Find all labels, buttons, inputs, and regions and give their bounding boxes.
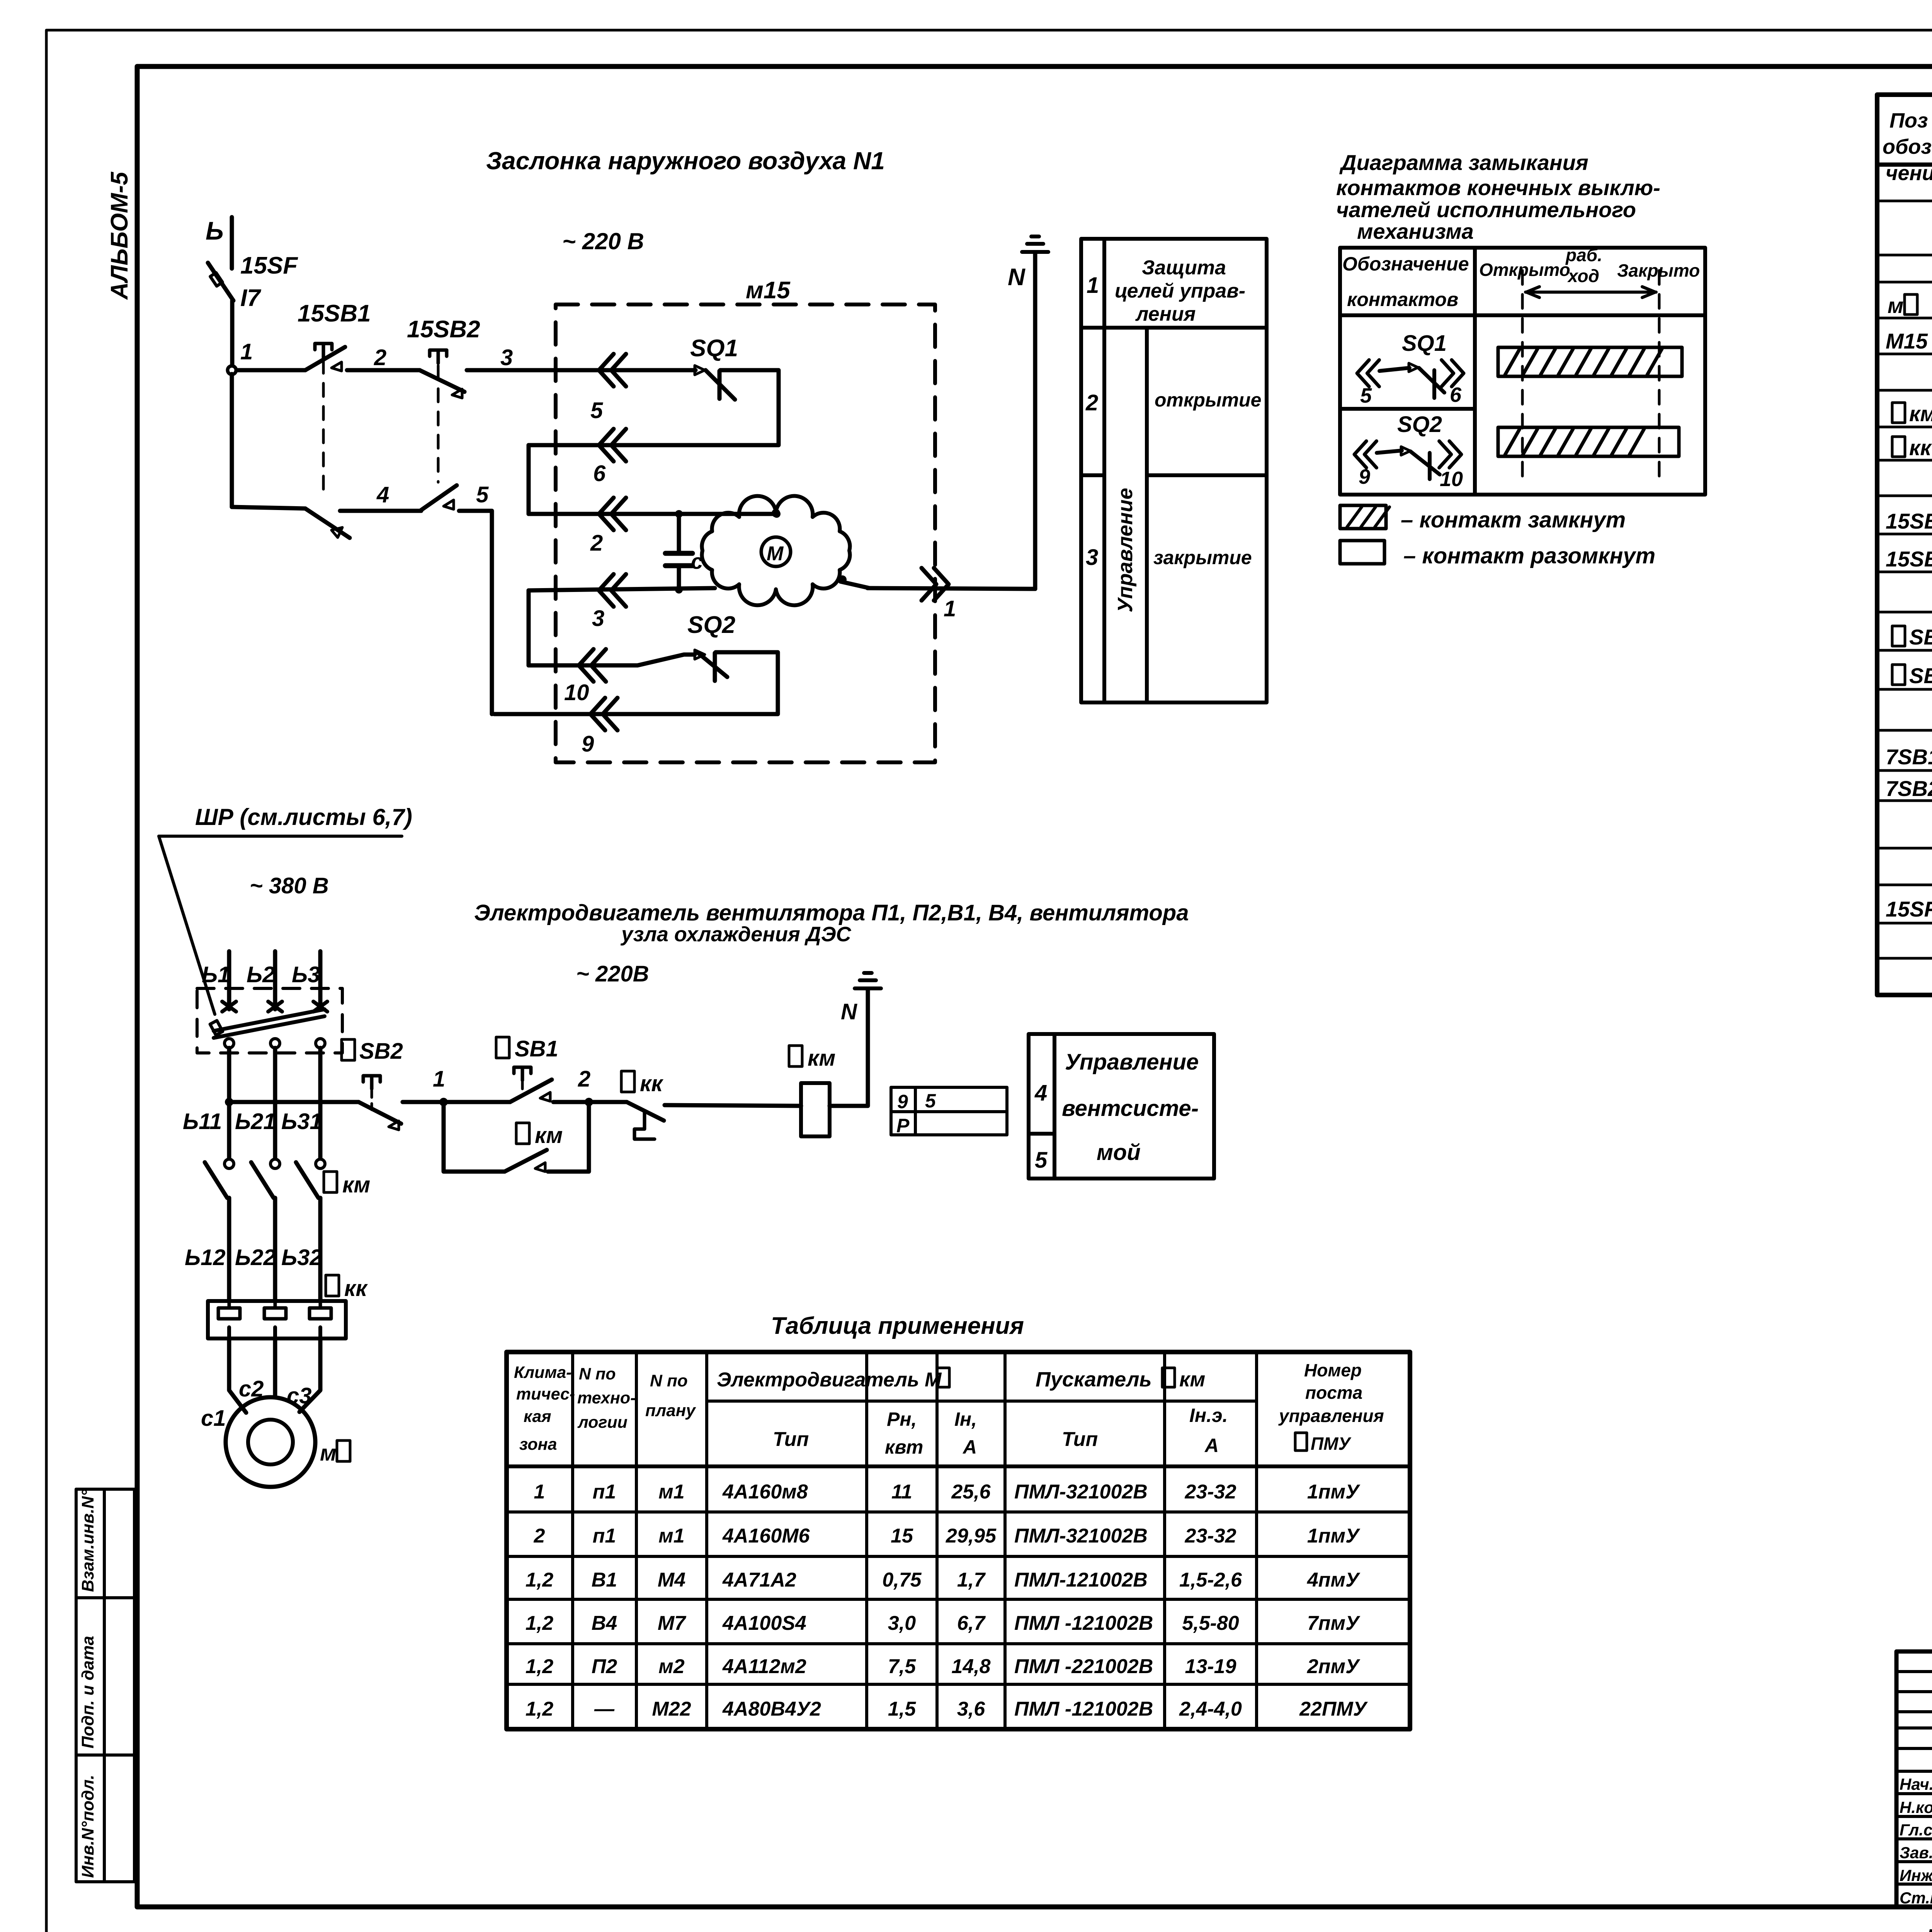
contactor main contacts <box>205 1159 325 1301</box>
spec row м@ <box>1888 293 1932 318</box>
svg-text:SQ2: SQ2 <box>1397 412 1442 437</box>
svg-text:М: М <box>767 543 784 565</box>
svg-text:1пмУ: 1пмУ <box>1307 1525 1361 1547</box>
svg-text:управления: управления <box>1278 1406 1384 1426</box>
svg-text:механизма: механизма <box>1357 219 1474 243</box>
svg-text:Электродвигатель М: Электродвигатель М <box>717 1369 942 1391</box>
svg-text:п1: п1 <box>593 1525 616 1547</box>
wire row4 right drop <box>459 511 492 714</box>
motor M stator <box>226 1397 315 1487</box>
svg-text:2: 2 <box>534 1525 545 1547</box>
pushbutton 15SB1 NO contact <box>305 344 345 371</box>
wire 15SB1 to 15SB2 <box>347 368 420 372</box>
svg-text:Диаграмма замыкания: Диаграмма замыкания <box>1339 150 1588 175</box>
contact 15SB1.2 NC <box>305 509 350 538</box>
spec row @SB1 <box>1892 625 1932 649</box>
svg-text:– контакт разомкнут: – контакт разомкнут <box>1403 543 1655 568</box>
svg-text:—: — <box>594 1698 615 1720</box>
svg-text:с2: с2 <box>239 1376 264 1401</box>
svg-text:ления: ления <box>1135 303 1196 325</box>
svg-text:Ь: Ь <box>206 216 224 245</box>
margin stamp boxes <box>76 1489 134 1882</box>
svg-text:1,5: 1,5 <box>888 1698 916 1720</box>
svg-text:Управление: Управление <box>1065 1049 1199 1075</box>
svg-text:5: 5 <box>1360 384 1372 407</box>
svg-text:Копировал: Копировал <box>1927 1925 1932 1932</box>
svg-text:2: 2 <box>590 531 603 556</box>
wire row 10 <box>529 655 695 665</box>
svg-text:Инж.: Инж. <box>1900 1866 1932 1884</box>
function box Управление вентсистемой <box>1029 1034 1214 1179</box>
capacitor C <box>665 514 692 590</box>
title block frame <box>1896 1651 1932 1907</box>
svg-text:АЛЬБОМ-5: АЛЬБОМ-5 <box>106 171 133 300</box>
limit switch SQ1 <box>695 366 735 400</box>
svg-text:Взам.инв.N°: Взам.инв.N° <box>78 1490 97 1592</box>
svg-text:Нач.отд.: Нач.отд. <box>1900 1775 1932 1793</box>
svg-text:открытие: открытие <box>1155 389 1261 411</box>
svg-text:5: 5 <box>925 1090 936 1112</box>
wire to node 1 <box>403 1100 444 1104</box>
svg-text:6: 6 <box>593 461 606 486</box>
label КК relay <box>326 1275 368 1301</box>
svg-text:Тип: Тип <box>773 1428 809 1451</box>
ground symbol N coil <box>855 973 881 988</box>
thermal contact КК NC <box>589 1102 801 1139</box>
svg-text:Поз: Поз <box>1889 109 1928 132</box>
svg-text:ПМЛ-321002В: ПМЛ-321002В <box>1014 1481 1148 1503</box>
svg-text:В4: В4 <box>592 1612 617 1634</box>
svg-text:Номер: Номер <box>1304 1360 1362 1380</box>
svg-text:А: А <box>962 1436 977 1458</box>
contact 15SB2.2 NO <box>421 485 457 510</box>
wire coil to N <box>830 990 868 1106</box>
junction dots <box>675 510 683 518</box>
travel dashed limits <box>1521 270 1524 484</box>
svg-text:SQ1: SQ1 <box>690 335 738 362</box>
svg-text:N по: N по <box>579 1365 616 1383</box>
plug contact 10 <box>579 649 606 682</box>
svg-text:3,0: 3,0 <box>888 1612 916 1634</box>
svg-text:15SB2: 15SB2 <box>407 316 480 343</box>
svg-text:раб.: раб. <box>1565 245 1602 265</box>
spec row 15SB2 <box>1886 547 1932 571</box>
svg-text:N: N <box>841 999 857 1024</box>
svg-text:2,4-4,0: 2,4-4,0 <box>1179 1698 1242 1720</box>
svg-text:2: 2 <box>374 345 386 370</box>
svg-text:0,75: 0,75 <box>882 1569 922 1591</box>
svg-text:п1: п1 <box>593 1481 616 1503</box>
svg-text:6: 6 <box>1450 383 1462 406</box>
disconnect switch box dashed <box>197 988 342 1053</box>
wire row 3 <box>529 588 715 590</box>
wire node1 down <box>230 374 234 507</box>
symbol SQ1 <box>1357 331 1464 407</box>
svg-text:Зав.гр.: Зав.гр. <box>1900 1844 1932 1862</box>
svg-text:П2: П2 <box>592 1655 617 1678</box>
wire motor to N riser <box>840 582 869 588</box>
switch blades <box>210 1002 327 1048</box>
wire node1 to 15SB1 <box>236 368 305 372</box>
svg-text:закрытие: закрытие <box>1153 547 1252 568</box>
plug contact 6 <box>599 429 626 461</box>
svg-text:вентсисте-: вентсисте- <box>1062 1096 1199 1121</box>
label M motor <box>320 1440 350 1466</box>
stop button SB2 NC <box>359 1076 401 1130</box>
wire row 2 to motor top <box>529 512 776 516</box>
svg-text:2пмУ: 2пмУ <box>1307 1655 1361 1678</box>
svg-text:1: 1 <box>1087 273 1099 298</box>
spec row 15SF <box>1886 897 1932 921</box>
svg-text:7SB2: 7SB2 <box>1886 776 1932 801</box>
svg-text:Защита: Защита <box>1142 257 1226 279</box>
svg-text:ПМЛ-121002В: ПМЛ-121002В <box>1014 1569 1148 1591</box>
svg-text:Ь2: Ь2 <box>247 962 275 987</box>
terminal marker table <box>891 1087 1007 1135</box>
application row 1 <box>534 1481 1361 1503</box>
node L11 <box>225 1098 233 1106</box>
svg-text:техно-: техно- <box>577 1389 636 1407</box>
signature row Ст.техн. <box>1900 1888 1932 1907</box>
svg-text:2: 2 <box>1085 390 1098 415</box>
svg-text:4А71А2: 4А71А2 <box>722 1569 796 1591</box>
svg-text:3,6: 3,6 <box>957 1698 985 1720</box>
signature row Инж. <box>1900 1866 1932 1885</box>
specification table <box>1877 95 1932 995</box>
svg-text:м2: м2 <box>658 1655 684 1678</box>
svg-text:5,5-80: 5,5-80 <box>1182 1612 1239 1634</box>
application row 5 <box>526 1655 1361 1678</box>
svg-text:Ь3: Ь3 <box>292 962 320 987</box>
svg-text:м: м <box>320 1440 337 1466</box>
limit switch SQ2 <box>695 650 727 681</box>
svg-text:5: 5 <box>1035 1148 1048 1173</box>
svg-text:15: 15 <box>891 1525 913 1547</box>
svg-text:1пмУ: 1пмУ <box>1307 1481 1361 1503</box>
svg-text:4: 4 <box>1034 1080 1047 1105</box>
svg-text:23-32: 23-32 <box>1185 1481 1236 1503</box>
junction dot cap bottom <box>675 586 683 594</box>
svg-text:1: 1 <box>534 1481 545 1503</box>
spec row 15SB1 <box>1886 509 1932 533</box>
svg-text:SB2: SB2 <box>1909 663 1932 688</box>
wire riser to N <box>1033 253 1037 589</box>
svg-text:1,2: 1,2 <box>526 1655 553 1678</box>
wire SQ1 loop to contact 6 <box>529 370 779 445</box>
actuator box M15 dashed <box>556 304 935 762</box>
svg-text:Электродвигатель вентилятора: Электродвигатель вентилятора П1, П2,В1, … <box>474 900 1189 925</box>
application row 2 <box>534 1525 1361 1547</box>
svg-text:Пускатель: Пускатель <box>1036 1368 1152 1391</box>
svg-text:Ст.техн.: Ст.техн. <box>1900 1889 1932 1907</box>
svg-text:мой: мой <box>1097 1140 1141 1165</box>
svg-text:1: 1 <box>240 339 253 364</box>
svg-text:15SB1: 15SB1 <box>298 300 371 327</box>
control wire from L11 <box>233 1100 359 1104</box>
wire bracket 6-2 <box>527 445 531 514</box>
svg-text:1,2: 1,2 <box>526 1612 553 1634</box>
svg-text:1: 1 <box>433 1066 445 1092</box>
start button SB1 NO <box>444 1067 552 1102</box>
svg-text:Ь32: Ь32 <box>281 1245 322 1270</box>
application row 4 <box>526 1612 1361 1634</box>
svg-text:Открыто: Открыто <box>1479 260 1570 280</box>
svg-text:м15: м15 <box>746 277 791 304</box>
svg-text:кк: кк <box>1909 435 1932 460</box>
wire row4 left <box>232 507 305 509</box>
svg-text:Инв.N°подл.: Инв.N°подл. <box>78 1775 97 1878</box>
svg-text:М15: М15 <box>1886 329 1928 353</box>
spec row 7SB1 <box>1886 745 1932 769</box>
svg-text:4пмУ: 4пмУ <box>1307 1569 1361 1591</box>
svg-text:Таблица применения: Таблица применения <box>771 1313 1024 1339</box>
svg-text:М4: М4 <box>658 1569 685 1591</box>
svg-text:логии: логии <box>577 1413 628 1432</box>
svg-text:Iн,: Iн, <box>954 1408 977 1430</box>
wires to contactor <box>229 1048 320 1159</box>
svg-text:25,6: 25,6 <box>951 1481 991 1503</box>
svg-text:поста: поста <box>1305 1383 1362 1403</box>
legend open contact <box>1340 541 1655 568</box>
svg-text:Ь21: Ь21 <box>235 1109 276 1134</box>
svg-text:7SB1: 7SB1 <box>1886 745 1932 769</box>
svg-text:кк: кк <box>640 1071 663 1096</box>
svg-text:км: км <box>1179 1368 1205 1391</box>
plug contact 3 <box>599 574 626 607</box>
svg-text:5: 5 <box>590 398 603 423</box>
application row 3 <box>526 1569 1361 1591</box>
svg-text:15SB2: 15SB2 <box>1886 547 1932 571</box>
travel dimension arrow <box>1526 287 1656 298</box>
svg-text:Тип: Тип <box>1062 1428 1098 1451</box>
svg-text:– контакт замкнут: – контакт замкнут <box>1401 507 1626 532</box>
svg-text:кая: кая <box>524 1407 551 1426</box>
svg-text:4А112м2: 4А112м2 <box>722 1655 806 1678</box>
svg-text:4А160М6: 4А160М6 <box>722 1525 810 1547</box>
svg-text:Ь31: Ь31 <box>281 1109 322 1134</box>
svg-text:1,2: 1,2 <box>526 1698 553 1720</box>
svg-text:Подп. и дата: Подп. и дата <box>78 1636 97 1748</box>
wire node3 to SQ1 <box>467 368 696 372</box>
svg-text:контактов: контактов <box>1347 289 1458 310</box>
svg-text:14,8: 14,8 <box>951 1655 990 1678</box>
svg-text:Iн.э.: Iн.э. <box>1189 1405 1228 1426</box>
svg-text:чение: чение <box>1886 162 1932 185</box>
svg-text:4А160м8: 4А160м8 <box>722 1481 808 1503</box>
svg-text:3: 3 <box>1086 545 1098 570</box>
signature row Гл.спец. <box>1900 1820 1932 1839</box>
svg-text:1,2: 1,2 <box>526 1569 553 1591</box>
svg-text:км: км <box>808 1046 835 1071</box>
wires to motor <box>229 1338 320 1413</box>
svg-text:Ь22: Ь22 <box>235 1245 276 1270</box>
svg-text:7,5: 7,5 <box>888 1655 916 1678</box>
signature row Н.контр. <box>1900 1798 1932 1817</box>
wire to node 2 <box>553 1100 589 1104</box>
svg-text:9: 9 <box>582 731 594 757</box>
svg-text:Обозначение: Обозначение <box>1342 253 1469 275</box>
svg-text:с3: с3 <box>287 1383 312 1408</box>
spec row 7SB2 <box>1886 776 1932 801</box>
svg-text:А: А <box>1204 1435 1219 1456</box>
svg-text:23-32: 23-32 <box>1185 1525 1236 1547</box>
signature row Зав.гр. <box>1900 1843 1932 1862</box>
svg-text:I7: I7 <box>240 285 261 311</box>
node 1 <box>228 366 236 374</box>
svg-text:чателей исполнительного: чателей исполнительного <box>1336 197 1636 222</box>
state bar SQ2 <box>1498 427 1679 456</box>
svg-text:SQ1: SQ1 <box>1402 331 1447 356</box>
revision rows <box>1896 1651 1932 1907</box>
svg-text:км: км <box>1909 401 1932 426</box>
svg-text:10: 10 <box>564 680 589 705</box>
spec row @км <box>1892 401 1932 426</box>
contact diagram table <box>1340 248 1705 495</box>
svg-text:15SF: 15SF <box>240 252 298 279</box>
svg-text:9: 9 <box>1359 465 1370 488</box>
svg-text:квт: квт <box>885 1436 923 1458</box>
svg-text:целей управ-: целей управ- <box>1115 280 1245 302</box>
svg-text:~ 220В: ~ 220В <box>576 961 649 986</box>
svg-text:ПМЛ -121002В: ПМЛ -121002В <box>1014 1612 1153 1634</box>
svg-text:Ь12: Ь12 <box>185 1245 226 1270</box>
plug contact 1 <box>922 568 949 600</box>
plug contact 2 <box>599 498 626 530</box>
svg-text:SQ2: SQ2 <box>687 612 735 638</box>
pushbutton 15SB2 NC contact <box>420 350 464 398</box>
svg-text:ПМЛ-321002В: ПМЛ-321002В <box>1014 1525 1148 1547</box>
wire L supply lead <box>232 217 232 366</box>
wire row4 mid <box>340 509 421 513</box>
thermal relay heaters <box>208 1301 346 1338</box>
svg-text:4А100S4: 4А100S4 <box>722 1612 806 1634</box>
svg-text:кк: кк <box>344 1276 368 1301</box>
svg-text:13-19: 13-19 <box>1185 1655 1236 1678</box>
svg-text:3: 3 <box>500 345 513 370</box>
wire bracket 3-10 <box>527 590 531 665</box>
svg-text:10: 10 <box>1440 468 1463 491</box>
svg-text:м1: м1 <box>658 1481 684 1503</box>
svg-text:~ 380 В: ~ 380 В <box>250 873 329 898</box>
label КМ contacts <box>324 1172 370 1197</box>
ground symbol N <box>1022 236 1048 252</box>
plug contact 9 <box>590 698 617 730</box>
svg-text:Ь11: Ь11 <box>183 1109 222 1134</box>
spec row @SB2 <box>1892 663 1932 688</box>
svg-text:7пмУ: 7пмУ <box>1307 1612 1361 1634</box>
svg-text:м: м <box>1888 293 1903 318</box>
svg-text:9: 9 <box>897 1091 908 1112</box>
svg-text:обозна-: обозна- <box>1883 135 1932 158</box>
state bar SQ1 <box>1498 347 1682 376</box>
svg-text:1: 1 <box>944 596 956 621</box>
svg-text:1,7: 1,7 <box>957 1569 986 1591</box>
legend closed contact <box>1340 505 1626 532</box>
spec row М15 <box>1886 329 1932 353</box>
svg-text:зона: зона <box>519 1435 557 1454</box>
svg-text:2: 2 <box>578 1066 590 1092</box>
wire SQ2 loop to contact 9 <box>494 652 778 714</box>
svg-text:15SF: 15SF <box>1886 897 1932 921</box>
svg-text:SB2: SB2 <box>359 1039 403 1064</box>
svg-text:ход: ход <box>1567 266 1599 286</box>
signature row Нач.отд. <box>1900 1775 1932 1794</box>
svg-text:Управление: Управление <box>1114 488 1137 612</box>
svg-text:с1: с1 <box>201 1406 226 1431</box>
svg-text:В1: В1 <box>592 1569 617 1591</box>
svg-text:3: 3 <box>592 606 604 631</box>
svg-text:~ 220 В: ~ 220 В <box>562 228 644 254</box>
svg-text:ШР (см.листы 6,7): ШР (см.листы 6,7) <box>195 804 412 830</box>
svg-text:6,7: 6,7 <box>957 1612 986 1634</box>
svg-text:узла охлаждения ДЭС: узла охлаждения ДЭС <box>620 923 852 946</box>
application table grid <box>507 1352 1410 1729</box>
svg-text:контактов конечных выклю-: контактов конечных выклю- <box>1336 175 1660 200</box>
svg-text:км: км <box>535 1123 563 1148</box>
svg-text:Заслонка наружного воздуха: Заслонка наружного воздуха N1 <box>486 147 885 175</box>
svg-text:Н.контр.: Н.контр. <box>1900 1798 1932 1816</box>
svg-text:4А80В4У2: 4А80В4У2 <box>722 1698 821 1720</box>
svg-text:плану: плану <box>645 1401 696 1420</box>
svg-text:N: N <box>1008 264 1026 291</box>
svg-text:ПМЛ -121002В: ПМЛ -121002В <box>1014 1698 1153 1720</box>
holding contact КМ <box>444 1106 589 1172</box>
svg-text:ПМУ: ПМУ <box>1311 1434 1352 1454</box>
phase leads <box>229 951 320 1009</box>
svg-text:N по: N по <box>650 1371 688 1390</box>
svg-text:тичес-: тичес- <box>516 1385 575 1403</box>
svg-text:М7: М7 <box>658 1612 686 1634</box>
svg-text:1,5-2,6: 1,5-2,6 <box>1179 1569 1242 1591</box>
svg-text:4: 4 <box>376 482 389 507</box>
svg-text:11: 11 <box>891 1481 912 1503</box>
contactor coil КМ <box>801 1083 830 1136</box>
svg-text:Рн,: Рн, <box>887 1408 917 1430</box>
svg-text:Гл.спец.: Гл.спец. <box>1900 1821 1932 1839</box>
svg-text:15SB1: 15SB1 <box>1886 509 1932 533</box>
svg-text:км: км <box>342 1172 370 1197</box>
symbol SQ2 <box>1354 412 1463 491</box>
svg-text:5: 5 <box>476 482 489 507</box>
svg-text:SB1: SB1 <box>515 1036 558 1061</box>
svg-text:29,95: 29,95 <box>946 1525 997 1547</box>
motor M rotor circle <box>761 537 791 566</box>
svg-text:М22: М22 <box>652 1698 691 1720</box>
spec row @кк <box>1892 435 1932 460</box>
svg-text:ПМЛ -221002В: ПМЛ -221002В <box>1014 1655 1153 1678</box>
svg-text:22ПМУ: 22ПМУ <box>1299 1698 1368 1720</box>
application row 6 <box>526 1698 1368 1720</box>
svg-text:м1: м1 <box>658 1525 684 1547</box>
table Защита цепей управления <box>1081 239 1267 702</box>
svg-text:Ь1: Ь1 <box>202 962 230 987</box>
svg-text:Клима-: Клима- <box>514 1363 572 1382</box>
plug contact 5 <box>599 354 626 386</box>
breaker 15SF <box>208 263 233 301</box>
svg-text:Р: Р <box>896 1115 910 1136</box>
svg-text:SB1: SB1 <box>1909 625 1932 649</box>
motor M15 winding cloud <box>702 496 850 605</box>
